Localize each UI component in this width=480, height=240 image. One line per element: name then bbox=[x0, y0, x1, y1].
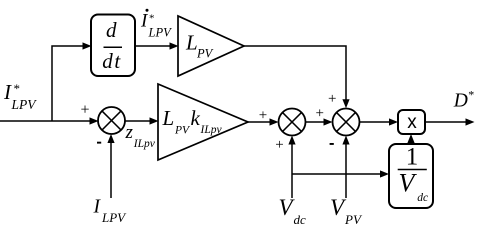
svg-text:PV: PV bbox=[344, 212, 363, 227]
label D* (duty cycle output) bbox=[453, 87, 475, 111]
summing junction S2 (circle with X) bbox=[279, 109, 306, 136]
svg-text:LPV: LPV bbox=[11, 97, 38, 112]
summing junction S3 (circle with X) bbox=[333, 109, 360, 136]
svg-text:d: d bbox=[106, 18, 117, 42]
svg-text:ILpv: ILpv bbox=[200, 124, 223, 136]
svg-text:PV: PV bbox=[196, 47, 214, 61]
wire: tap from V_dc line right into 1/V_dc block bbox=[292, 170, 389, 177]
wire: S2 output to summing junction S3 bbox=[306, 118, 333, 125]
svg-text:+: + bbox=[316, 106, 324, 122]
label I_LPV bbox=[93, 197, 128, 225]
svg-text:x: x bbox=[407, 112, 417, 133]
label V_dc bbox=[279, 195, 307, 227]
gain block U2 L_PV k_ILpv (triangle) bbox=[158, 84, 248, 160]
svg-text:+: + bbox=[275, 137, 283, 153]
svg-text:PV: PV bbox=[174, 125, 191, 137]
svg-text:*: * bbox=[14, 81, 21, 96]
wire: gain output to summing junction S2 bbox=[248, 118, 279, 125]
svg-text:LPV: LPV bbox=[148, 26, 173, 40]
block U4 1/V_dc bbox=[389, 143, 433, 208]
svg-text:1: 1 bbox=[406, 143, 419, 170]
wire: V_PV up into S3 bottom bbox=[342, 136, 349, 199]
svg-text:*: * bbox=[468, 87, 474, 101]
svg-text:*: * bbox=[149, 12, 155, 24]
wire: 1/V_dc output up into multiplier bottom bbox=[407, 134, 414, 144]
svg-text:D: D bbox=[453, 91, 468, 112]
svg-text:ILpv: ILpv bbox=[133, 138, 156, 150]
gain block U1 L_PV (triangle) bbox=[178, 16, 244, 76]
svg-text:dt: dt bbox=[102, 49, 122, 73]
label İ*_LPV (derivative of reference current) bbox=[140, 9, 172, 40]
sign - at S1 bottom input bbox=[97, 142, 101, 144]
sign - at S3 bottom input bbox=[330, 143, 334, 145]
wire: S3 output to multiplier block bbox=[360, 118, 399, 125]
multiplier block U3 (x) bbox=[398, 110, 425, 134]
wire: V_dc up into S2 bottom bbox=[288, 136, 295, 199]
svg-text:LPV: LPV bbox=[101, 210, 127, 225]
wire: input I*_LPV to summing junction S1 bbox=[0, 117, 99, 124]
wire: L_PV output right then down into summing junction S3 top bbox=[244, 46, 350, 108]
svg-text:+: + bbox=[81, 101, 90, 118]
svg-text:+: + bbox=[328, 91, 336, 107]
wire: I_LPV up into S1 bottom bbox=[107, 134, 114, 198]
block d/dt (derivative) bbox=[91, 15, 135, 77]
label z_ILpv (error signal) bbox=[125, 122, 156, 150]
wire: branch from input line up and right to d/dt block bbox=[52, 42, 92, 121]
label V_PV bbox=[330, 195, 363, 227]
label I*_LPV (input reference current) bbox=[3, 80, 37, 112]
wire: d/dt output to gain L_PV bbox=[135, 42, 179, 49]
svg-text:L: L bbox=[162, 106, 175, 130]
summing junction S1 (circle with X) bbox=[98, 107, 125, 134]
svg-text:k: k bbox=[191, 106, 201, 130]
svg-text:dc: dc bbox=[417, 192, 428, 204]
wire: multiplier output to D* bbox=[425, 118, 475, 125]
wire: S1 output to gain L_PV k_ILpv bbox=[125, 117, 159, 124]
svg-text:z: z bbox=[125, 122, 134, 143]
svg-text:L: L bbox=[185, 31, 198, 55]
svg-text:dc: dc bbox=[294, 212, 307, 227]
